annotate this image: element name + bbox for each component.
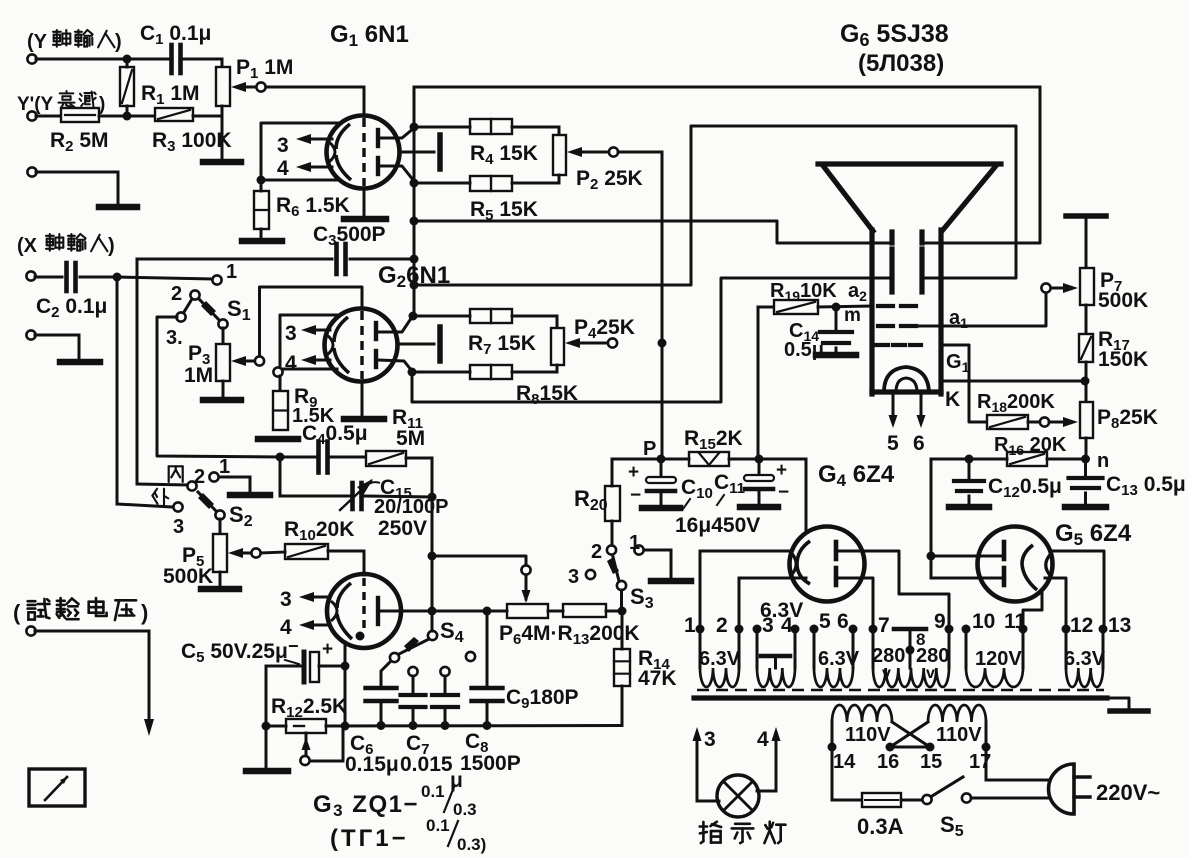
label C6 0.15u <box>345 732 399 776</box>
svg-text:15: 15 <box>920 751 942 773</box>
switch contact circle <box>273 367 282 376</box>
label 110V <box>936 724 982 746</box>
node <box>257 176 266 185</box>
wire S1 common to P3 <box>222 328 225 344</box>
tube G3 grid <box>362 578 365 628</box>
label G4 6Z4 <box>818 461 895 490</box>
label R20 <box>574 486 608 514</box>
svg-text:7: 7 <box>878 614 890 637</box>
svg-text:R2 5M: R2 5M <box>50 129 109 155</box>
node C1 left junction <box>123 55 132 64</box>
potentiometer P8 <box>1080 402 1093 438</box>
ground <box>949 504 989 511</box>
wire <box>835 311 838 331</box>
label C12 0.5u <box>988 475 1062 501</box>
switch S3 contact 2 <box>591 541 616 563</box>
svg-text:120V: 120V <box>975 648 1022 670</box>
svg-text:P: P <box>643 438 656 460</box>
label R19 10K <box>770 280 837 304</box>
capacitor C12 <box>954 459 984 503</box>
wire C15 bus <box>280 457 349 496</box>
CRT neck left wall <box>869 230 874 394</box>
node <box>410 217 419 226</box>
svg-text:0.3A: 0.3A <box>857 814 904 839</box>
resistor R11 <box>366 451 406 466</box>
svg-text:+: + <box>628 462 639 483</box>
node <box>483 607 492 616</box>
svg-text:R1 1M: R1 1M <box>141 82 200 108</box>
label S5 <box>940 812 964 840</box>
tube G2 plate lower <box>374 351 378 367</box>
wire <box>444 710 447 725</box>
CRT heater pin 5 <box>887 395 899 455</box>
svg-text:20/100P: 20/100P <box>374 496 449 518</box>
winding 3-4 center tap <box>761 656 790 668</box>
label P3 1M <box>184 342 213 387</box>
wire K to divider <box>941 380 1085 383</box>
wire <box>35 631 149 718</box>
svg-text:4: 4 <box>757 728 769 751</box>
switch S4 spare contact <box>466 652 475 661</box>
center tap 8 <box>894 629 926 668</box>
node <box>441 721 450 730</box>
wire <box>971 797 1050 800</box>
switch S2 contact 3 <box>173 502 184 538</box>
capacitor C4 <box>319 442 328 473</box>
label S4 <box>440 618 464 646</box>
svg-text:4: 4 <box>285 352 297 375</box>
label C3 500P <box>313 223 386 249</box>
capacitor C10 electrolytic <box>628 459 676 506</box>
tube G3 cathode <box>331 583 352 639</box>
svg-text:1: 1 <box>226 261 237 283</box>
label (X-axis input) <box>17 234 115 257</box>
label 0.3A <box>857 814 904 839</box>
svg-text:+: + <box>322 639 333 660</box>
wire <box>380 704 383 725</box>
svg-text:5: 5 <box>819 610 831 633</box>
label C5 50V.25u <box>181 636 299 666</box>
wire X down to S2 contact 3 <box>117 277 173 507</box>
label 17 <box>969 751 991 773</box>
node 15 <box>926 743 935 752</box>
node 14 <box>828 722 837 752</box>
wire center vertical to G3 <box>431 497 434 631</box>
CRT funnel <box>818 164 1001 231</box>
wire G5 cathode to 12 <box>1045 578 1066 629</box>
svg-text:3: 3 <box>285 322 297 345</box>
wire <box>219 572 222 586</box>
transformer winding 5-6 (6.3V) <box>814 629 853 687</box>
node <box>410 179 419 188</box>
transformer winding 10-11 (120V) <box>966 629 1023 687</box>
ground <box>242 238 282 245</box>
label R18 200K <box>977 391 1055 415</box>
wire <box>606 610 622 613</box>
terminal X ground <box>26 330 35 339</box>
label (5L038) <box>858 50 944 77</box>
label R7 15K <box>468 332 536 358</box>
svg-text:6: 6 <box>837 610 849 633</box>
capacitor C3 <box>337 244 346 274</box>
CRT cathode dome <box>884 367 929 392</box>
svg-text:0.3: 0.3 <box>453 800 477 819</box>
switch S1 arm <box>200 300 228 329</box>
ground <box>246 768 288 775</box>
transformer winding 7-8-9 (280V) <box>873 629 949 687</box>
svg-text:1: 1 <box>219 456 230 478</box>
label 16u450V <box>675 514 760 537</box>
tube G1 plate lower <box>376 158 380 174</box>
svg-text:10: 10 <box>972 610 995 633</box>
wire <box>986 747 1052 780</box>
label indicator lamp <box>700 822 786 843</box>
mains plug <box>1049 764 1090 814</box>
deflection plate upper-left <box>889 232 894 261</box>
wire <box>36 172 118 204</box>
svg-text:6.3V: 6.3V <box>699 648 741 670</box>
terminal Y attenuated input <box>27 111 36 120</box>
wire <box>80 276 117 279</box>
wire <box>1047 458 1085 461</box>
capacitor C6 <box>366 688 397 701</box>
wire G4 plate upper to 9 <box>838 551 949 629</box>
wire P1 to ground <box>221 106 224 160</box>
resistor R16 <box>1007 452 1047 466</box>
potentiometer P4 <box>551 328 564 365</box>
ground <box>60 359 100 366</box>
wire contacts 2-3 link <box>184 299 192 312</box>
wire G1 upper plate lead <box>380 128 414 138</box>
wire <box>193 115 222 118</box>
node R1 bottom junction <box>123 112 132 121</box>
resistor R4 <box>414 119 512 134</box>
svg-text:3: 3 <box>568 566 579 588</box>
wire <box>365 496 432 497</box>
svg-text:250V: 250V <box>378 517 427 540</box>
label R11 5M <box>392 406 425 450</box>
wire <box>486 704 489 725</box>
P5 wiper <box>228 548 261 558</box>
transformer winding 12-13 (6.3V) <box>1066 629 1103 687</box>
label G2 6N1 <box>378 262 450 291</box>
svg-text:0.015: 0.015 <box>400 753 453 776</box>
label S2 <box>229 502 253 530</box>
svg-text:3: 3 <box>277 134 289 157</box>
svg-text:P825K: P825K <box>1097 406 1158 432</box>
wire <box>381 661 391 686</box>
label S1 <box>227 296 251 324</box>
svg-text:16: 16 <box>877 751 899 773</box>
indicator lamp <box>717 775 759 817</box>
wire lamp pin 3 <box>693 727 720 801</box>
pin 3 G1 <box>277 134 332 157</box>
label K <box>945 388 960 411</box>
label (test voltage) <box>13 598 148 625</box>
wire 11 to G5 <box>1023 592 1042 629</box>
label C2 0.1u <box>36 295 107 321</box>
resistor R18 <box>987 415 1028 429</box>
tube G5 plate lower <box>1002 568 1007 585</box>
wire S1 contact3 to C4 bus <box>157 317 280 457</box>
capacitor C1 <box>172 45 181 73</box>
resistor R15 <box>661 452 729 466</box>
wire B+ bus top <box>414 86 1040 89</box>
capacitor C14 <box>820 332 852 343</box>
node <box>1081 377 1090 386</box>
wire <box>1085 438 1088 459</box>
svg-text:0.1: 0.1 <box>421 782 445 801</box>
tube G3 dot electrode <box>356 632 365 641</box>
wire sawtooth bottom bus <box>266 724 622 728</box>
wire anode bus to left CRT plate <box>414 221 889 243</box>
node <box>428 552 437 561</box>
label C9 180P <box>506 686 579 712</box>
wire a1 to P7 wiper <box>916 292 1046 326</box>
ground <box>740 504 778 511</box>
label 120V <box>975 648 1022 670</box>
svg-text:(5Л038): (5Л038) <box>858 50 944 77</box>
ground <box>230 492 270 499</box>
switch S4 arm <box>399 637 429 654</box>
label G1 electrode <box>946 351 970 375</box>
transformer winding 1-2 (6.3V) <box>700 629 739 687</box>
svg-text:1: 1 <box>629 532 640 554</box>
node n <box>1081 450 1109 472</box>
label P1 1M <box>236 56 293 82</box>
core ground <box>1107 698 1148 711</box>
label C7 0.015u <box>400 732 463 792</box>
wire <box>611 521 614 545</box>
label 220V~ <box>1096 780 1160 805</box>
svg-text:): ) <box>141 600 148 625</box>
svg-text:P2 25K: P2 25K <box>576 167 643 193</box>
pin 4 G2 <box>285 352 330 375</box>
wire <box>219 519 222 534</box>
wire G1 center lead <box>399 151 434 154</box>
node <box>262 722 271 731</box>
P7 wiper <box>1041 283 1078 293</box>
R12 wiper <box>300 726 343 765</box>
wire G2 center lead <box>397 343 434 346</box>
svg-text:−: − <box>288 636 299 656</box>
label 15 <box>920 751 942 773</box>
resistor R1 <box>120 67 134 106</box>
wire <box>126 59 129 116</box>
resistor R9 <box>273 391 288 430</box>
svg-text:5M: 5M <box>396 427 425 450</box>
wire G5 cathode to 13 <box>1050 551 1104 629</box>
label C13 0.5u <box>1106 473 1186 499</box>
wire <box>1028 421 1040 424</box>
svg-text:C13 0.5μ: C13 0.5μ <box>1106 473 1186 499</box>
wire <box>486 611 489 686</box>
ground <box>258 436 298 443</box>
wire <box>36 58 169 61</box>
label 16 <box>877 751 899 773</box>
svg-text:16μ450V: 16μ450V <box>675 514 760 537</box>
label (TG1-0.1/0.3) <box>330 816 486 854</box>
wire G3 cathode lead <box>344 642 347 666</box>
label P2 25K <box>576 167 643 193</box>
svg-text:R6 1.5K: R6 1.5K <box>276 194 350 220</box>
tube G1 grid <box>362 118 365 186</box>
svg-text:6.3V: 6.3V <box>760 599 803 622</box>
wire <box>280 456 318 459</box>
svg-text:500K: 500K <box>163 565 213 588</box>
wire <box>329 456 366 459</box>
label 6.3V <box>699 648 741 670</box>
wire wiper bus P2/P4 <box>618 152 662 459</box>
wire <box>835 348 838 353</box>
switch S1 contact 2 <box>171 283 200 305</box>
node <box>410 255 419 264</box>
wire <box>1085 362 1088 402</box>
electrode a1 dashes <box>878 324 916 328</box>
wire <box>444 676 447 694</box>
svg-text:R815K: R815K <box>516 382 578 408</box>
pin 3 G2 <box>285 322 330 345</box>
label nei <box>169 466 183 482</box>
svg-text:−: − <box>778 482 789 503</box>
wire G2 cathode below <box>361 382 364 416</box>
resistor R17 <box>1079 334 1093 362</box>
svg-text:5: 5 <box>887 432 899 455</box>
fuse 0.3A <box>862 793 901 807</box>
wire CRT right upper plate feed <box>926 87 1040 243</box>
capacitor C9 <box>472 688 503 701</box>
deflection plate lower-left <box>889 266 894 292</box>
node <box>341 722 350 731</box>
wire G4 cathode to terminal 1 <box>700 551 789 629</box>
electrode G1 dashes <box>876 343 921 347</box>
wire G4 heater to terminal 2 <box>739 578 806 629</box>
wire heater frame G1 <box>261 123 340 180</box>
wire <box>406 458 432 497</box>
svg-text:0.5μ: 0.5μ <box>784 339 824 361</box>
label R10 20K <box>284 518 354 544</box>
capacitor C8 <box>432 695 458 707</box>
tube G2 plate upper <box>374 323 378 339</box>
svg-text:4: 4 <box>277 157 289 180</box>
resistor R3 <box>155 108 193 121</box>
wire R19 riser <box>758 307 774 459</box>
switch S2 contact 1 <box>209 456 230 482</box>
label 250V <box>378 517 427 540</box>
P1 wiper <box>231 82 266 92</box>
label a2 <box>848 280 867 304</box>
switch S3 contact 3 <box>568 566 595 588</box>
capacitor C13 <box>1069 459 1103 503</box>
svg-text:110V: 110V <box>936 724 982 746</box>
label 14 <box>833 751 856 773</box>
wire <box>612 459 661 486</box>
primary crossover <box>890 722 930 747</box>
ground <box>344 416 384 423</box>
node <box>428 607 437 616</box>
wire <box>621 686 624 726</box>
wire <box>219 477 250 492</box>
svg-text:2: 2 <box>194 466 205 488</box>
pin 4 G3 <box>280 616 330 639</box>
svg-text:3: 3 <box>704 728 716 751</box>
svg-text:C40.5μ: C40.5μ <box>302 422 368 448</box>
svg-text:1: 1 <box>684 614 696 637</box>
tube G5 plate upper <box>1002 542 1007 559</box>
transformer primary winding left 110V <box>832 705 892 722</box>
svg-text:1M: 1M <box>184 364 213 387</box>
wire <box>644 550 671 577</box>
pin 3 G3 <box>280 588 330 611</box>
switch S2 arm <box>198 492 225 520</box>
switch S4 contact <box>390 653 399 662</box>
wire <box>260 229 263 238</box>
wire lamp pin 4 <box>757 727 781 791</box>
CRT neck right wall <box>938 230 943 394</box>
wire G1 cathode below <box>363 188 366 216</box>
svg-text:C3500P: C3500P <box>313 223 386 249</box>
P4 wiper <box>565 338 617 348</box>
label 20/100P <box>374 496 449 518</box>
wire <box>35 276 62 279</box>
svg-text:K: K <box>945 388 960 411</box>
triode G2 envelope <box>325 309 398 382</box>
transformer terminal numbers <box>684 610 1131 637</box>
wire <box>183 59 222 67</box>
tube G5 cathode <box>1022 545 1052 590</box>
label R16 20K <box>994 434 1067 458</box>
deflection plate lower-right <box>919 266 924 292</box>
label C1 0.1u <box>140 22 211 48</box>
terminal Y input <box>27 54 36 63</box>
capacitor C11 electrolytic <box>744 459 789 503</box>
capacitor C5 <box>304 639 333 682</box>
tube G1 plate bar <box>437 135 443 169</box>
wire <box>266 665 345 668</box>
ground <box>651 578 691 585</box>
potentiometer P6 <box>507 604 548 618</box>
label C10 <box>681 476 713 509</box>
label (Y-axis input) <box>27 30 122 53</box>
potentiometer P1 <box>216 67 230 106</box>
wire G1 to R18 <box>941 345 987 422</box>
P3 wiper <box>231 356 264 366</box>
rectifier G5 envelope <box>978 527 1053 602</box>
arrow down <box>144 719 154 736</box>
tube G2 grid <box>360 311 363 379</box>
svg-text:−: − <box>630 485 641 506</box>
label P8 25K <box>1097 406 1158 432</box>
svg-text:R122.5K: R122.5K <box>271 695 347 721</box>
wire P3 wiper to G2 grid frame <box>260 287 363 356</box>
svg-text:P1 1M: P1 1M <box>236 56 293 82</box>
node 17 <box>982 722 991 752</box>
svg-text:C1 0.1μ: C1 0.1μ <box>140 22 211 48</box>
wire main left vertical <box>413 87 416 316</box>
wire C3 right <box>350 258 414 261</box>
ground <box>344 216 386 223</box>
terminal ground post <box>27 167 36 176</box>
node <box>113 273 122 282</box>
terminal test voltage <box>26 626 35 635</box>
label R3 100K <box>152 129 232 155</box>
svg-text:14: 14 <box>833 751 856 773</box>
resistor R6 <box>254 184 269 229</box>
resistor R5 <box>414 176 512 191</box>
potentiometer P7 <box>1080 268 1094 305</box>
wire <box>931 458 1007 461</box>
svg-text:47K: 47K <box>638 667 677 690</box>
